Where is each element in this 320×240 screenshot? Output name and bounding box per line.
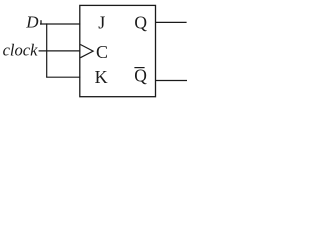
svg-text:C: C — [96, 42, 108, 62]
svg-text:J: J — [98, 13, 105, 33]
svg-text:K: K — [95, 67, 108, 87]
svg-text:D: D — [25, 12, 39, 31]
wire Qbar output — [155, 80, 187, 82]
svg-text:Q: Q — [134, 12, 147, 32]
D wire tick — [40, 20, 42, 24]
flip-flop U1 body — [80, 5, 156, 96]
svg-text:Q: Q — [134, 66, 147, 86]
wire D input — [40, 23, 80, 25]
overbar of Qbar — [134, 67, 144, 69]
wire K input — [46, 76, 80, 78]
wire junction vertical D to K — [46, 23, 48, 77]
wire clock input — [39, 50, 81, 52]
svg-text:clock: clock — [3, 41, 38, 60]
clock edge-trigger triangle at C input — [80, 45, 93, 58]
wire Q output — [155, 21, 186, 23]
